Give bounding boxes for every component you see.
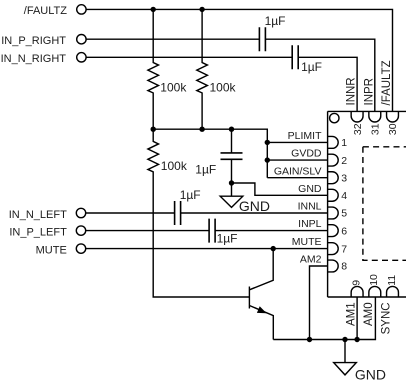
wire GVDD <box>267 159 327 161</box>
svg-text:INNR: INNR <box>346 77 358 105</box>
pin 4 GND <box>298 183 347 202</box>
wire PLIMIT <box>267 141 327 143</box>
capacitor C3 1uF <box>175 188 201 225</box>
svg-text:31: 31 <box>370 123 382 135</box>
wire C2 to INNR pin <box>298 57 357 111</box>
svg-text:1µF: 1µF <box>301 60 322 74</box>
terminal MUTE <box>36 244 86 256</box>
wire GAIN/SLV <box>267 177 327 179</box>
pin 1 indicator circle <box>330 113 339 122</box>
ground GND2 <box>334 340 386 383</box>
svg-text:/FAULTZ: /FAULTZ <box>24 5 67 17</box>
svg-text:100k: 100k <box>161 159 188 173</box>
svg-text:100k: 100k <box>160 80 187 94</box>
node rail/R2 <box>199 127 204 132</box>
wire C5 bottom to GND pin 4 <box>232 183 328 195</box>
pin 30 /FAULTZ <box>381 60 399 135</box>
node rail/C5 <box>229 127 234 132</box>
pin 5 INNL <box>298 201 348 220</box>
resistor R1 100k <box>148 9 187 129</box>
svg-text:1µF: 1µF <box>217 231 238 245</box>
capacitor C4 1uF <box>209 219 237 246</box>
wire C4 to INPL pin <box>215 230 328 232</box>
terminal IN_N_RIGHT <box>1 53 87 66</box>
node GND2/rail <box>342 337 347 342</box>
node PLIMIT junction <box>265 140 270 145</box>
wire AM2 from pin 8 <box>310 266 328 340</box>
svg-text:5: 5 <box>341 208 347 220</box>
resistor R3 100k with wire to transistor base <box>148 129 250 297</box>
terminal /FAULTZ <box>24 5 86 18</box>
wire /FAULTZ net <box>86 9 392 111</box>
terminal IN_N_LEFT <box>9 208 86 221</box>
svg-text:10: 10 <box>368 274 380 286</box>
node rail/R1 <box>151 127 156 132</box>
terminal IN_P_RIGHT <box>1 35 86 48</box>
ground GND1 <box>220 183 270 214</box>
pin 9 AM1 <box>345 280 363 326</box>
wire MUTE to pin 7 <box>86 248 328 250</box>
svg-text:AM0: AM0 <box>363 302 375 326</box>
op-amp U1 IC body <box>328 111 406 297</box>
wire IN_N_LEFT to C3 <box>86 212 175 214</box>
svg-text:8: 8 <box>341 261 347 273</box>
wire C3 to INNL pin <box>181 212 328 214</box>
wire IN_P_LEFT to C4 <box>86 230 209 232</box>
svg-text:GND: GND <box>298 183 322 195</box>
wire IN_P_RIGHT to C1 <box>86 38 259 40</box>
svg-text:SYNC: SYNC <box>381 302 393 334</box>
svg-text:AM1: AM1 <box>345 302 357 326</box>
node MUTE/collector junction <box>271 246 276 251</box>
svg-text:2: 2 <box>341 155 347 167</box>
svg-text:1µF: 1µF <box>265 14 286 28</box>
svg-text:100k: 100k <box>210 80 237 94</box>
svg-text:9: 9 <box>350 280 362 286</box>
terminal IN_P_LEFT <box>9 226 85 238</box>
svg-text:7: 7 <box>341 243 347 255</box>
wire AM1 from pin 9 <box>356 297 358 340</box>
thermal pad dashed outline <box>363 147 406 260</box>
pin 2 GVDD <box>291 148 347 167</box>
wire IN_N_RIGHT to C2 <box>86 56 292 58</box>
svg-text:6: 6 <box>341 225 347 237</box>
node AM2/rail <box>307 337 312 342</box>
svg-text:GAIN/SLV: GAIN/SLV <box>274 165 322 177</box>
svg-text:3: 3 <box>341 172 347 184</box>
svg-text:1µF: 1µF <box>180 188 201 202</box>
svg-text:11: 11 <box>386 275 398 286</box>
pin 11 SYNC <box>381 275 399 335</box>
svg-text:IN_P_RIGHT: IN_P_RIGHT <box>1 35 66 47</box>
svg-text:/FAULTZ: /FAULTZ <box>381 60 393 105</box>
capacitor C5 1uF (vertical) <box>195 129 242 183</box>
node R1 top junction <box>151 7 156 12</box>
svg-text:PLIMIT: PLIMIT <box>288 130 322 142</box>
svg-text:1µF: 1µF <box>195 163 216 177</box>
svg-text:30: 30 <box>387 123 399 135</box>
resistor R2 100k <box>197 9 237 129</box>
wire resistor-bottom rail to GAIN/SLV column <box>153 129 267 178</box>
node C5 bottom junction <box>229 180 234 185</box>
pin 7 MUTE <box>292 236 348 255</box>
pin 31 INPR <box>363 78 381 135</box>
svg-text:INPR: INPR <box>363 78 375 105</box>
pin 10 AM0 <box>363 274 381 326</box>
capacitor C2 1uF <box>292 45 322 74</box>
pin 8 AM2 <box>300 254 347 273</box>
node GVDD junction <box>265 157 270 162</box>
pin 6 INPL <box>298 218 347 237</box>
node R2 top junction <box>199 7 204 12</box>
svg-text:INPL: INPL <box>298 218 322 230</box>
wire C1 to INPR pin <box>265 39 374 111</box>
svg-text:4: 4 <box>341 190 347 202</box>
pin 1 PLIMIT <box>288 130 348 149</box>
svg-text:AM2: AM2 <box>300 254 322 266</box>
svg-text:IN_N_RIGHT: IN_N_RIGHT <box>1 53 67 65</box>
svg-text:GND: GND <box>239 198 270 214</box>
svg-text:INNL: INNL <box>298 201 322 213</box>
capacitor C1 1uF <box>259 14 285 51</box>
svg-text:1: 1 <box>341 137 347 149</box>
svg-text:GVDD: GVDD <box>291 148 322 160</box>
svg-text:32: 32 <box>352 123 364 135</box>
svg-text:GND: GND <box>355 367 386 383</box>
pin 3 GAIN/SLV <box>274 165 347 184</box>
node AM1/rail <box>354 337 359 342</box>
svg-text:IN_P_LEFT: IN_P_LEFT <box>9 226 67 238</box>
transistor Q1 <box>249 249 273 340</box>
pin 32 INNR <box>346 77 364 135</box>
svg-text:MUTE: MUTE <box>36 244 67 256</box>
svg-text:MUTE: MUTE <box>292 236 322 248</box>
svg-text:IN_N_LEFT: IN_N_LEFT <box>9 209 67 221</box>
wire bottom rail <box>273 297 375 340</box>
